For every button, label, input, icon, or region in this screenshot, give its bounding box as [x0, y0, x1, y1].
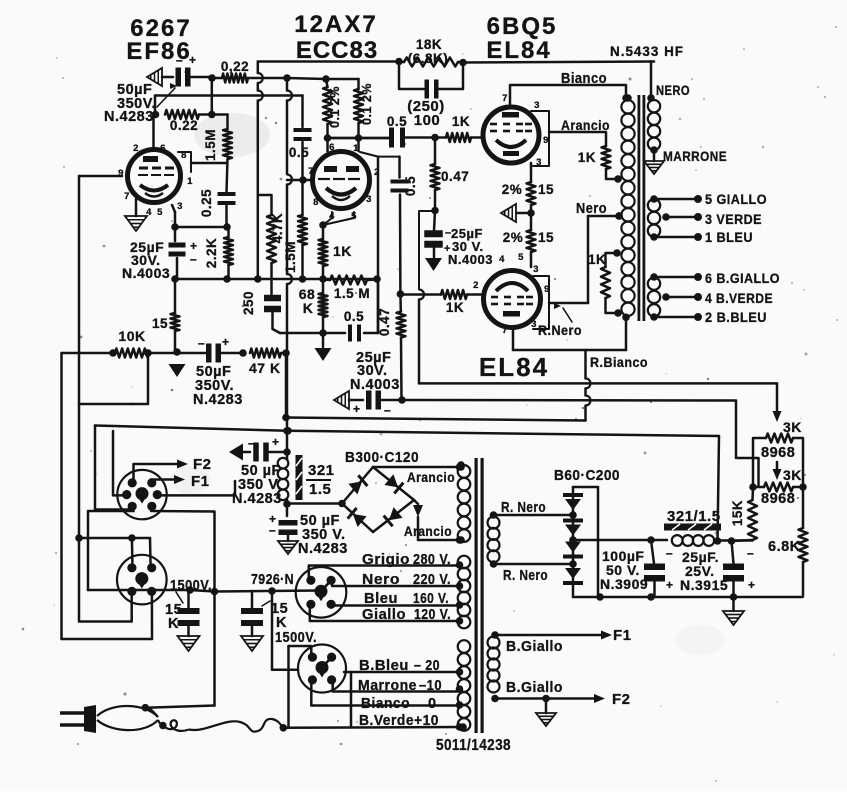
svg-text:1: 1 [187, 176, 193, 187]
svg-text:5: 5 [518, 252, 524, 263]
svg-text:1: 1 [353, 143, 359, 154]
svg-text:F2: F2 [612, 691, 631, 708]
svg-text:0.5: 0.5 [387, 114, 407, 129]
svg-text:+: + [444, 243, 451, 255]
svg-text:1 BLEU: 1 BLEU [705, 230, 753, 245]
svg-text:+: + [189, 53, 197, 67]
svg-text:–: – [666, 546, 673, 560]
svg-text:9: 9 [118, 168, 124, 179]
svg-text:R.Bianco: R.Bianco [590, 355, 648, 370]
svg-text:250: 250 [241, 291, 256, 315]
svg-text:15: 15 [538, 230, 554, 245]
svg-text:R.Nero: R.Nero [538, 323, 582, 338]
svg-text:+: + [190, 239, 198, 253]
svg-text:5011/14238: 5011/14238 [436, 737, 511, 754]
svg-text:F1: F1 [613, 627, 632, 644]
svg-text:0.47: 0.47 [441, 169, 469, 184]
svg-text:+: + [666, 578, 674, 592]
svg-text:2: 2 [473, 280, 479, 291]
svg-text:12AX7: 12AX7 [294, 11, 377, 38]
svg-text:B60·C200: B60·C200 [554, 467, 620, 484]
svg-text:N.4283: N.4283 [232, 491, 282, 507]
svg-text:6 B.GIALLO: 6 B.GIALLO [705, 271, 780, 286]
svg-text:0.1 2%: 0.1 2% [360, 83, 374, 125]
svg-text:321/1.5: 321/1.5 [667, 508, 721, 525]
svg-text:K: K [276, 615, 287, 631]
svg-text:N.4003: N.4003 [350, 377, 400, 393]
svg-text:0.25: 0.25 [199, 189, 214, 217]
svg-text:3K: 3K [783, 467, 802, 483]
svg-text:F2: F2 [193, 456, 212, 473]
svg-text:–: – [176, 53, 183, 67]
svg-text:N.5433 HF: N.5433 HF [610, 44, 684, 59]
svg-text:100: 100 [414, 112, 441, 129]
svg-text:1K: 1K [333, 243, 352, 259]
svg-text:6BQ5: 6BQ5 [487, 13, 558, 40]
svg-text:–: – [384, 403, 391, 417]
svg-text:MARRONE: MARRONE [663, 149, 727, 164]
svg-text:7: 7 [502, 325, 508, 336]
svg-text:8: 8 [313, 197, 319, 208]
svg-text:18K: 18K [416, 37, 442, 52]
svg-text:EL84: EL84 [486, 37, 551, 64]
svg-text:6: 6 [160, 143, 166, 154]
svg-text:EL84: EL84 [479, 352, 549, 382]
svg-text:8968: 8968 [761, 491, 795, 507]
svg-text:4: 4 [499, 254, 505, 265]
svg-text:N.4283: N.4283 [298, 541, 348, 557]
svg-text:Arancio: Arancio [404, 524, 452, 539]
svg-text:R. Nero: R. Nero [501, 500, 546, 516]
svg-text:15: 15 [152, 316, 168, 331]
svg-text:K: K [168, 616, 179, 632]
svg-text:–: – [190, 252, 197, 266]
svg-text:N.4003: N.4003 [448, 252, 493, 267]
svg-text:321: 321 [308, 462, 335, 479]
svg-text:7926·N: 7926·N [251, 571, 294, 588]
svg-text:+: + [748, 578, 756, 592]
svg-text:1K: 1K [452, 114, 470, 129]
svg-text:5: 5 [157, 207, 163, 218]
svg-text:1K: 1K [578, 150, 596, 165]
svg-text:3: 3 [366, 194, 372, 205]
svg-text:2%: 2% [502, 182, 523, 197]
svg-text:2: 2 [133, 143, 139, 154]
svg-text:0.22: 0.22 [170, 118, 198, 133]
svg-text:0,22: 0,22 [221, 59, 249, 74]
svg-text:0.1 2%: 0.1 2% [328, 86, 342, 128]
svg-text:N.3915: N.3915 [680, 577, 728, 593]
svg-text:3: 3 [177, 201, 183, 212]
svg-text:–: – [198, 336, 205, 350]
svg-text:1.5: 1.5 [309, 481, 331, 498]
svg-text:+: + [272, 435, 280, 449]
svg-text:1K: 1K [588, 252, 606, 267]
svg-text:0: 0 [428, 696, 437, 712]
svg-text:3K: 3K [783, 419, 802, 435]
svg-text:1.5M: 1.5M [203, 129, 218, 161]
svg-text:+: + [222, 335, 230, 349]
svg-text:N.4003: N.4003 [122, 265, 170, 281]
svg-text:10K: 10K [118, 328, 145, 344]
svg-text:R. Nero: R. Nero [503, 568, 548, 584]
svg-text:K: K [303, 300, 314, 316]
svg-text:ECC83: ECC83 [296, 37, 378, 64]
svg-text:3: 3 [534, 100, 540, 111]
svg-text:3: 3 [533, 264, 539, 275]
svg-text:Nero: Nero [576, 201, 607, 217]
svg-text:1.5 M: 1.5 M [334, 286, 370, 301]
svg-text:7: 7 [502, 93, 508, 104]
svg-text:8968: 8968 [761, 445, 795, 461]
svg-text:0.5: 0.5 [289, 145, 309, 160]
svg-text:1.5M: 1.5M [283, 241, 298, 273]
svg-text:1500V.: 1500V. [275, 630, 317, 646]
svg-text:2%: 2% [503, 230, 524, 245]
svg-text:2 B.BLEU: 2 B.BLEU [705, 310, 767, 325]
svg-text:+: + [353, 402, 361, 416]
svg-text:0.47: 0.47 [377, 308, 392, 336]
svg-text:2.2K: 2.2K [204, 238, 219, 269]
svg-text:0.5: 0.5 [344, 309, 364, 324]
svg-text:B300·C120: B300·C120 [345, 449, 419, 466]
svg-text:3 VERDE: 3 VERDE [705, 212, 762, 227]
svg-text:–: – [747, 546, 754, 560]
svg-text:1K: 1K [446, 300, 464, 315]
svg-text:NERO: NERO [656, 83, 690, 98]
svg-text:15K: 15K [730, 500, 745, 526]
svg-text:N.4283: N.4283 [104, 109, 154, 125]
svg-text:6: 6 [329, 142, 335, 153]
svg-text:Arancio: Arancio [407, 470, 455, 485]
svg-text:5 GIALLO: 5 GIALLO [705, 192, 767, 207]
svg-text:7: 7 [308, 166, 314, 177]
svg-text:47 K: 47 K [249, 360, 281, 376]
svg-text:–: – [269, 523, 276, 537]
svg-text:4 B.VERDE: 4 B.VERDE [705, 291, 773, 306]
svg-text:6.8K: 6.8K [768, 539, 801, 555]
svg-text:Bianco: Bianco [361, 696, 410, 712]
svg-text:F1: F1 [191, 473, 210, 490]
svg-text:N.4283: N.4283 [193, 392, 243, 408]
svg-text:15: 15 [538, 182, 554, 197]
svg-text:7: 7 [124, 191, 130, 202]
svg-text:B.Giallo: B.Giallo [506, 639, 563, 655]
svg-text:B.Giallo: B.Giallo [506, 680, 563, 696]
svg-text:–: – [248, 436, 255, 450]
svg-text:N.3909: N.3909 [600, 576, 648, 592]
svg-text:0.5: 0.5 [403, 176, 418, 196]
